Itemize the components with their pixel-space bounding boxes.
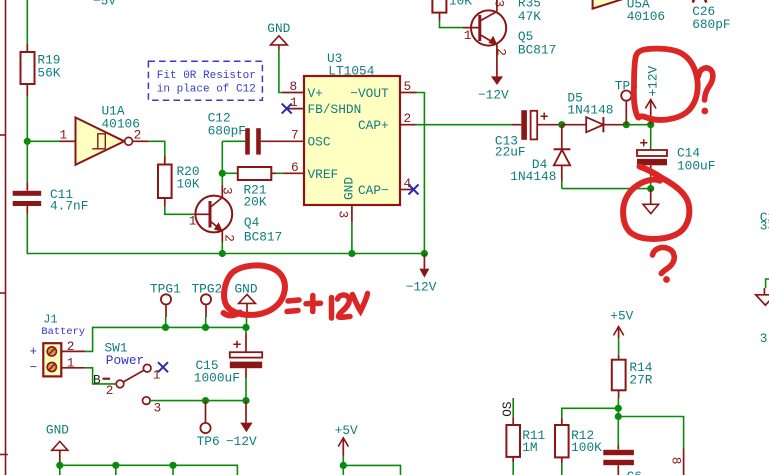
- svg-text:B: B: [93, 373, 101, 388]
- svg-text:V+: V+: [308, 86, 323, 101]
- svg-text:Battery: Battery: [41, 326, 85, 338]
- wire rail TPG1 to GND junction: [166, 326, 247, 328]
- resistor R20 10K: [158, 156, 200, 206]
- node junction TP6: [202, 397, 209, 404]
- power -12V below U3: [406, 254, 437, 295]
- test point TP6: [197, 401, 220, 449]
- wire junction to C6: [617, 417, 619, 445]
- node junction TPG2: [202, 324, 209, 331]
- svg-text:2: 2: [106, 383, 114, 398]
- capacitor C26 680pF (clipped wire tips): [692, 0, 730, 32]
- power +12V arrow up: [645, 65, 660, 124]
- wire to R12: [562, 408, 619, 418]
- annotation red circle around ground below C14: [623, 167, 689, 239]
- svg-text:5: 5: [404, 79, 412, 94]
- node junction right branch: [615, 413, 622, 420]
- pin 4 stub with no-connect X: [400, 189, 414, 191]
- transistor Q5 BC817: [463, 0, 556, 76]
- annotation red = + 12V: [287, 294, 368, 319]
- op-amp U3 LT1054: [290, 51, 412, 218]
- ground below C14: [643, 189, 659, 214]
- wire drops below rail: [60, 465, 173, 475]
- svg-text:+5V: +5V: [335, 423, 358, 438]
- annotation red circle around GND near C15: [224, 265, 285, 314]
- test point TP5: [615, 78, 638, 124]
- svg-text:100K: 100K: [571, 440, 602, 455]
- svg-text:10K: 10K: [177, 177, 200, 192]
- capacitor C13 22uF polarized: [495, 110, 562, 159]
- node junction -12V rail end: [421, 250, 428, 257]
- node junction +5V rail: [340, 462, 347, 469]
- svg-text:27R: 27R: [629, 373, 652, 388]
- wire D4 bottom to C14 bottom: [562, 188, 651, 190]
- node junction Q4 emitter on rail: [219, 250, 226, 257]
- wire R20 to Q4 base: [165, 206, 196, 214]
- ground GND above C15 rail: [235, 282, 258, 328]
- diode D5 1N4148: [562, 91, 626, 133]
- resistor R11 1M: [506, 417, 545, 475]
- svg-text:GND: GND: [46, 422, 69, 437]
- node junction C15 bottom: [242, 397, 249, 404]
- svg-text:Fit 0R Resistor: Fit 0R Resistor: [157, 70, 256, 82]
- svg-text:2: 2: [222, 234, 237, 242]
- svg-text:OSC: OSC: [308, 135, 331, 150]
- op-amp U5A 40106 (clipped top right): [593, 0, 666, 24]
- svg-text:680pF: 680pF: [208, 123, 246, 138]
- wire SW1 throw3 to rail: [150, 400, 246, 402]
- svg-text:2: 2: [67, 339, 75, 354]
- switch SW1 Power: [93, 341, 168, 416]
- capacitor C14 100uF polarized: [637, 125, 715, 189]
- resistor R19 56K: [21, 44, 61, 96]
- svg-text:1: 1: [67, 356, 75, 371]
- wire to U1A pin 1: [27, 140, 59, 142]
- test point TPG2: [192, 282, 223, 328]
- wire J1 pin2 up to rail: [85, 327, 165, 351]
- svg-text:47K: 47K: [518, 9, 541, 24]
- wire D5 to +12V node: [626, 124, 650, 126]
- svg-text:+5V: +5V: [610, 309, 633, 324]
- node junction GND/C15: [242, 324, 249, 331]
- power -12V below Q5: [478, 76, 509, 102]
- op-amp U1A 40106 inverter: [60, 104, 142, 165]
- svg-text:LT1054: LT1054: [328, 64, 374, 79]
- node junction at VREF/R21: [219, 170, 226, 177]
- svg-text:−5V: −5V: [93, 0, 116, 9]
- ground GND above U3: [267, 21, 290, 50]
- node junctions bottom rail: [56, 462, 63, 469]
- note dashed box: Fit 0R Resistor in place of C12: [148, 61, 262, 100]
- svg-text:GND: GND: [342, 177, 357, 200]
- svg-text:8: 8: [290, 79, 298, 94]
- svg-text:1: 1: [464, 28, 472, 43]
- svg-text:−: −: [30, 360, 38, 375]
- wire Q4 emitter down to rail: [221, 242, 223, 254]
- wire top to R19: [26, 0, 28, 44]
- svg-text:6: 6: [291, 160, 299, 175]
- svg-text:in place of C12: in place of C12: [157, 83, 256, 95]
- svg-text:1: 1: [189, 214, 197, 229]
- wire Q4 collector up: [221, 141, 223, 185]
- annotation red circle around +12V: [634, 49, 698, 120]
- power -12V below C15: [226, 401, 257, 449]
- svg-text:2: 2: [494, 48, 509, 56]
- svg-text:56K: 56K: [37, 66, 60, 81]
- svg-text:33: 33: [760, 219, 769, 234]
- svg-text:C6: C6: [627, 469, 642, 475]
- power +5V right: [610, 309, 633, 355]
- svg-text:CAP+: CAP+: [358, 118, 389, 133]
- pin 2 CAP+ wire to C13: [400, 124, 416, 126]
- svg-text:3: 3: [760, 331, 768, 346]
- wire 10K to Q5 base: [440, 21, 464, 28]
- svg-text:1: 1: [60, 128, 68, 143]
- wire R19 to C11: [26, 96, 28, 183]
- ground GND bottom left: [46, 422, 69, 465]
- svg-text:CAP−: CAP−: [358, 183, 389, 198]
- resistor R21 20K: [238, 167, 276, 210]
- svg-text:−12V: −12V: [226, 434, 257, 449]
- svg-text:100uF: 100uF: [677, 159, 715, 174]
- svg-text:8: 8: [669, 457, 684, 465]
- wire R21 to U3 pin 6: [276, 172, 283, 174]
- pin 5 -VOUT wire down to -12V: [400, 92, 417, 94]
- wire GND to U3 pin 8: [279, 50, 282, 93]
- node junction TP5: [623, 121, 630, 128]
- svg-text:3: 3: [336, 211, 351, 219]
- transistor Q4 BC817: [189, 186, 283, 245]
- wire U1A out to R20: [133, 140, 149, 142]
- annotation red question mark 1: [699, 68, 713, 100]
- pin 1 stub with no-connect X: [288, 108, 305, 110]
- capacitor C11 4.7nF: [13, 183, 89, 215]
- wire J1 pin1 to SW1: [85, 368, 116, 384]
- wire bottom rail C11 to -12V: [27, 214, 424, 254]
- svg-text:−VOUT: −VOUT: [350, 86, 389, 101]
- node junction D5/D4: [558, 121, 565, 128]
- resistor R12 100K: [555, 418, 602, 475]
- wire right branch with pin 8: [618, 417, 683, 475]
- svg-text:22uF: 22uF: [495, 145, 526, 160]
- wire R14 to junctions: [617, 398, 619, 417]
- node junction at U1A input: [24, 138, 31, 145]
- svg-text:4: 4: [404, 176, 412, 191]
- node junction pin3 on rail: [348, 250, 355, 257]
- svg-text:−12V: −12V: [478, 88, 509, 103]
- capacitor C12 680pF: [208, 111, 304, 155]
- svg-text:J1: J1: [43, 312, 57, 326]
- resistor R14 27R: [612, 355, 653, 398]
- wire OS to R11: [512, 398, 514, 417]
- sheet border left edge: [0, 0, 8, 475]
- svg-text:1M: 1M: [522, 440, 537, 455]
- test point TPG1: [150, 282, 181, 328]
- svg-text:BC817: BC817: [244, 230, 282, 245]
- right edge partial labels C2/33: [760, 210, 769, 234]
- svg-text:Power: Power: [106, 353, 144, 368]
- annotation red question mark 2: [653, 247, 675, 273]
- right edge power arrow down: [756, 279, 769, 305]
- resistor 10K (top, clipped): [432, 0, 472, 21]
- node junction TPG1: [162, 324, 169, 331]
- svg-text:FB/SHDN: FB/SHDN: [308, 102, 362, 117]
- svg-text:1000uF: 1000uF: [194, 371, 240, 386]
- svg-text:680pF: 680pF: [692, 17, 730, 32]
- svg-text:VREF: VREF: [308, 167, 339, 182]
- diode D4 1N4148: [510, 125, 570, 189]
- svg-text:40106: 40106: [627, 9, 665, 24]
- svg-text:10K: 10K: [449, 0, 472, 9]
- node junction R12 branch: [615, 405, 622, 412]
- svg-text:3: 3: [154, 401, 162, 416]
- power +5V bottom: [335, 423, 358, 466]
- svg-text:7: 7: [291, 128, 299, 143]
- svg-text:3: 3: [220, 187, 235, 195]
- svg-text:Q4: Q4: [244, 215, 260, 230]
- svg-text:TP6: TP6: [197, 434, 220, 449]
- svg-text:+12V: +12V: [645, 65, 660, 96]
- svg-text:−12V: −12V: [406, 279, 437, 294]
- svg-text:20K: 20K: [244, 195, 267, 210]
- svg-text:+: +: [30, 344, 38, 359]
- node junction +12V/C14: [647, 121, 654, 128]
- connector J1 Battery: [30, 312, 86, 376]
- wire junction to R21: [222, 172, 238, 174]
- svg-text:2: 2: [404, 111, 412, 126]
- capacitor C15 1000uF polarized: [194, 327, 262, 400]
- svg-text:1: 1: [290, 95, 298, 110]
- svg-text:BC817: BC817: [518, 42, 556, 57]
- svg-text:4.7nF: 4.7nF: [50, 199, 88, 214]
- wire bottom GND rail: [60, 465, 238, 475]
- svg-text:GND: GND: [267, 21, 290, 36]
- svg-text:1N4148: 1N4148: [567, 102, 613, 117]
- pin 3 GND stub down: [351, 205, 353, 222]
- wire +5V rail: [343, 465, 400, 475]
- svg-text:3: 3: [492, 0, 507, 7]
- node junction C14 bottom: [647, 185, 654, 192]
- svg-text:1N4148: 1N4148: [510, 169, 556, 184]
- capacitor C6: [603, 445, 642, 475]
